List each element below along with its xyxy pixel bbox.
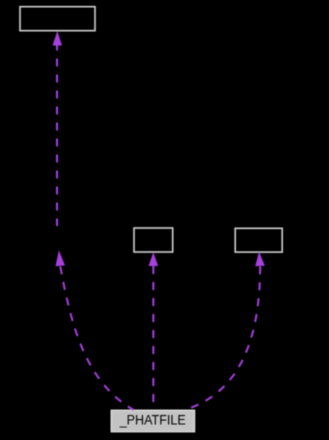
arrowhead: on left curve pointing up at hidden node	[56, 250, 66, 266]
node: top-left class box (empty label)	[20, 7, 95, 31]
edge: vertical dashed line from _PHATFILE up to middle box	[152, 266, 154, 409]
edge: curve from _PHATFILE up-left to hidden node	[60, 266, 133, 410]
edge: curve from _PHATFILE up-right to right box	[187, 266, 260, 409]
arrowhead: into right box bottom	[255, 252, 265, 267]
arrowhead: into top-left box bottom	[53, 31, 63, 46]
node: right class box (empty label)	[235, 228, 282, 252]
arrowhead: into middle box bottom	[149, 252, 159, 266]
edge: vertical dashed line from hidden node up to top-left box	[56, 46, 58, 227]
node: middle class box (empty label)	[134, 228, 173, 252]
node: _PHATFILE struct box (filled)	[111, 410, 194, 431]
svg-text:_PHATFILE: _PHATFILE	[119, 412, 186, 428]
